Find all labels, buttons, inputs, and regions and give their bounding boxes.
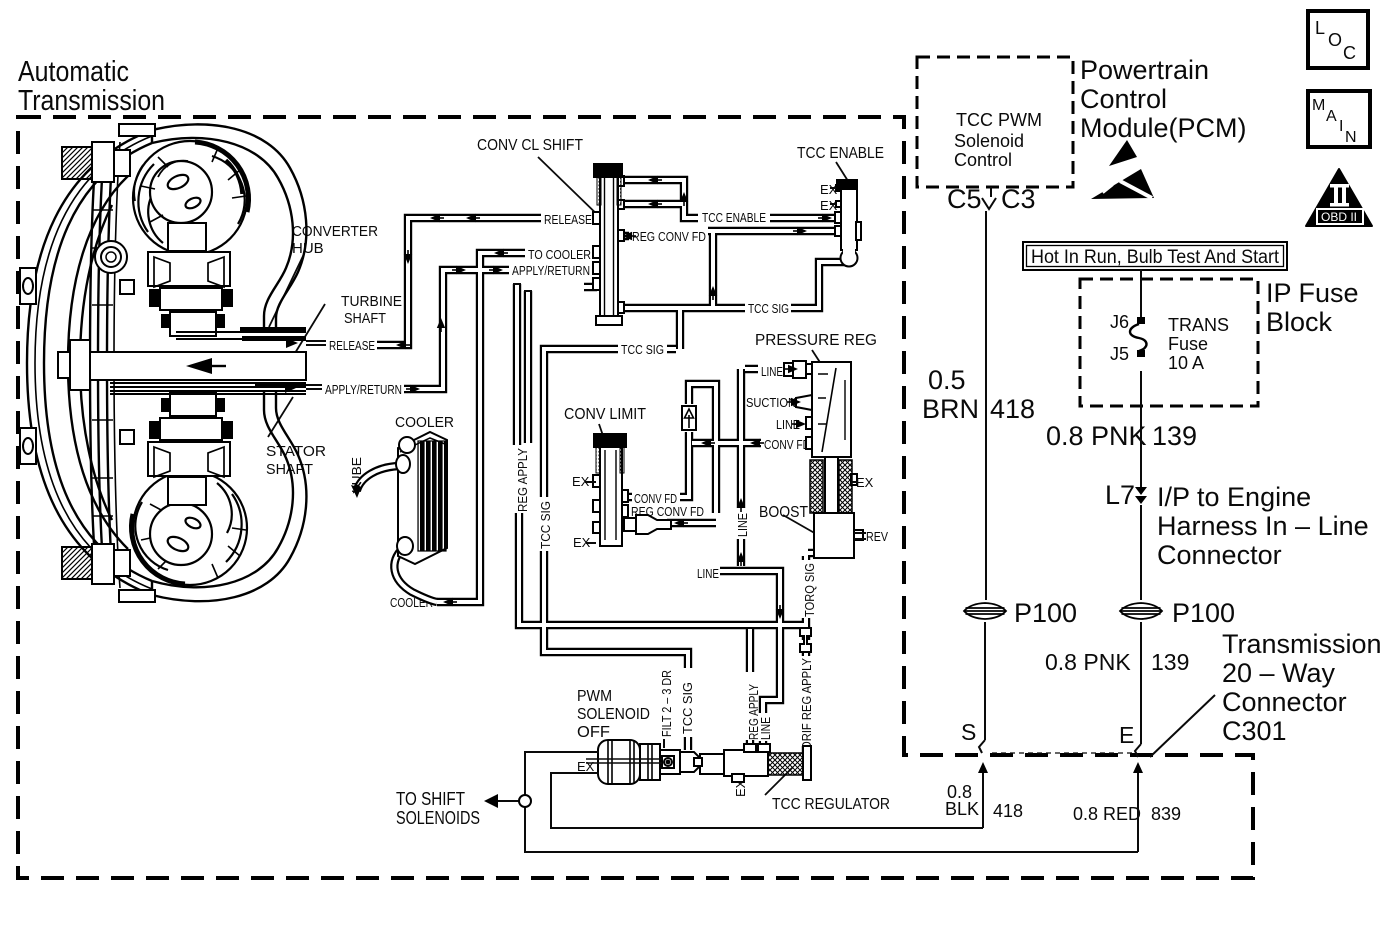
- svg-text:TURBINE: TURBINE: [341, 293, 402, 310]
- svg-text:Connector: Connector: [1222, 687, 1347, 717]
- svg-text:TORQ SIG: TORQ SIG: [802, 563, 817, 617]
- svg-text:TCC SIG: TCC SIG: [680, 682, 695, 734]
- svg-text:CONVERTER: CONVERTER: [292, 223, 378, 240]
- svg-text:139: 139: [1152, 421, 1197, 451]
- svg-text:EX: EX: [577, 759, 595, 774]
- svg-text:RELEASE: RELEASE: [544, 212, 592, 227]
- svg-text:L7: L7: [1105, 480, 1135, 510]
- svg-text:Block: Block: [1266, 307, 1333, 337]
- svg-text:TRANS: TRANS: [1168, 315, 1229, 335]
- svg-text:J5: J5: [1110, 344, 1129, 364]
- svg-text:TO COOLER: TO COOLER: [528, 247, 591, 262]
- svg-text:COOLER: COOLER: [395, 414, 454, 431]
- svg-text:PWM: PWM: [577, 688, 612, 705]
- svg-text:IP Fuse: IP Fuse: [1266, 278, 1359, 308]
- svg-text:OBD II: OBD II: [1321, 210, 1357, 224]
- svg-text:C3: C3: [1001, 184, 1036, 214]
- svg-text:PRESSURE REG: PRESSURE REG: [755, 332, 877, 349]
- svg-text:CONV FD: CONV FD: [764, 437, 810, 452]
- svg-text:0.8 RED: 0.8 RED: [1073, 804, 1141, 824]
- svg-text:I: I: [1339, 118, 1343, 135]
- svg-text:CONV CL SHIFT: CONV CL SHIFT: [477, 137, 583, 154]
- svg-text:S: S: [961, 719, 976, 745]
- svg-text:M: M: [1312, 97, 1325, 114]
- svg-text:Powertrain: Powertrain: [1080, 55, 1209, 85]
- svg-text:Connector: Connector: [1157, 540, 1282, 570]
- svg-text:REG APPLY: REG APPLY: [515, 448, 530, 512]
- svg-text:RELEASE: RELEASE: [329, 338, 375, 353]
- svg-text:LINE: LINE: [761, 364, 783, 379]
- svg-text:REV: REV: [866, 529, 888, 544]
- svg-text:C301: C301: [1222, 716, 1287, 746]
- svg-text:Control: Control: [954, 150, 1012, 170]
- svg-text:BLK: BLK: [945, 799, 979, 819]
- svg-text:Module(PCM): Module(PCM): [1080, 113, 1247, 143]
- svg-text:Harness In – Line: Harness In – Line: [1157, 511, 1369, 541]
- svg-text:TCC ENABLE: TCC ENABLE: [797, 145, 884, 162]
- svg-text:Hot In Run, Bulb Test And Star: Hot In Run, Bulb Test And Start: [1031, 247, 1280, 268]
- svg-text:E: E: [1119, 722, 1134, 748]
- svg-text:OFF: OFF: [577, 724, 610, 741]
- svg-text:C5: C5: [947, 184, 982, 214]
- svg-text:N: N: [1345, 129, 1357, 146]
- svg-text:REG CONV FD: REG CONV FD: [632, 229, 706, 244]
- svg-text:TCC ENABLE: TCC ENABLE: [702, 210, 766, 225]
- svg-text:TO SHIFT: TO SHIFT: [396, 789, 465, 809]
- svg-text:0.5: 0.5: [928, 365, 966, 395]
- svg-text:Automatic: Automatic: [18, 56, 129, 88]
- svg-text:418: 418: [990, 394, 1035, 424]
- svg-text:I/P to Engine: I/P to Engine: [1157, 482, 1311, 512]
- svg-text:Solenoid: Solenoid: [954, 131, 1024, 151]
- svg-text:HUB: HUB: [292, 240, 324, 257]
- svg-text:LINE: LINE: [735, 513, 750, 537]
- svg-text:10 A: 10 A: [1168, 353, 1204, 373]
- svg-text:BRN: BRN: [922, 394, 979, 424]
- svg-text:BOOST: BOOST: [759, 504, 808, 521]
- svg-text:P100: P100: [1014, 598, 1077, 628]
- svg-text:TCC SIG: TCC SIG: [538, 501, 553, 549]
- svg-text:TCC PWM: TCC PWM: [956, 110, 1042, 130]
- svg-text:C: C: [1343, 43, 1356, 63]
- svg-text:0.8 PNK: 0.8 PNK: [1046, 421, 1147, 451]
- svg-text:LINE: LINE: [758, 717, 773, 740]
- svg-text:P100: P100: [1172, 598, 1235, 628]
- svg-text:TCC REGULATOR: TCC REGULATOR: [772, 796, 890, 813]
- svg-text:Fuse: Fuse: [1168, 334, 1208, 354]
- svg-text:Control: Control: [1080, 84, 1167, 114]
- svg-text:APPLY/RETURN: APPLY/RETURN: [512, 263, 590, 278]
- svg-text:LINE: LINE: [697, 566, 719, 581]
- svg-text:FILT 2 – 3 DR: FILT 2 – 3 DR: [659, 670, 674, 737]
- svg-text:J6: J6: [1110, 312, 1129, 332]
- svg-text:418: 418: [993, 801, 1023, 821]
- svg-text:CONV LIMIT: CONV LIMIT: [564, 406, 646, 423]
- svg-text:Transmission: Transmission: [18, 85, 165, 117]
- svg-text:SHAFT: SHAFT: [344, 310, 386, 327]
- svg-text:839: 839: [1151, 804, 1181, 824]
- svg-text:SOLENOIDS: SOLENOIDS: [396, 808, 480, 828]
- svg-text:TCC SIG: TCC SIG: [621, 342, 664, 357]
- svg-text:EX: EX: [856, 475, 874, 490]
- svg-text:TCC SIG: TCC SIG: [748, 301, 789, 316]
- svg-text:SOLENOID: SOLENOID: [577, 706, 650, 723]
- svg-text:L: L: [1315, 18, 1325, 38]
- svg-text:ORIF REG APPLY: ORIF REG APPLY: [799, 658, 814, 750]
- svg-text:APPLY/RETURN: APPLY/RETURN: [325, 382, 402, 397]
- svg-text:20 – Way: 20 – Way: [1222, 658, 1336, 688]
- svg-text:139: 139: [1151, 649, 1189, 675]
- svg-text:Transmission: Transmission: [1222, 629, 1380, 659]
- svg-text:A: A: [1326, 108, 1337, 125]
- svg-text:O: O: [1328, 30, 1342, 50]
- svg-text:0.8 PNK: 0.8 PNK: [1045, 649, 1131, 675]
